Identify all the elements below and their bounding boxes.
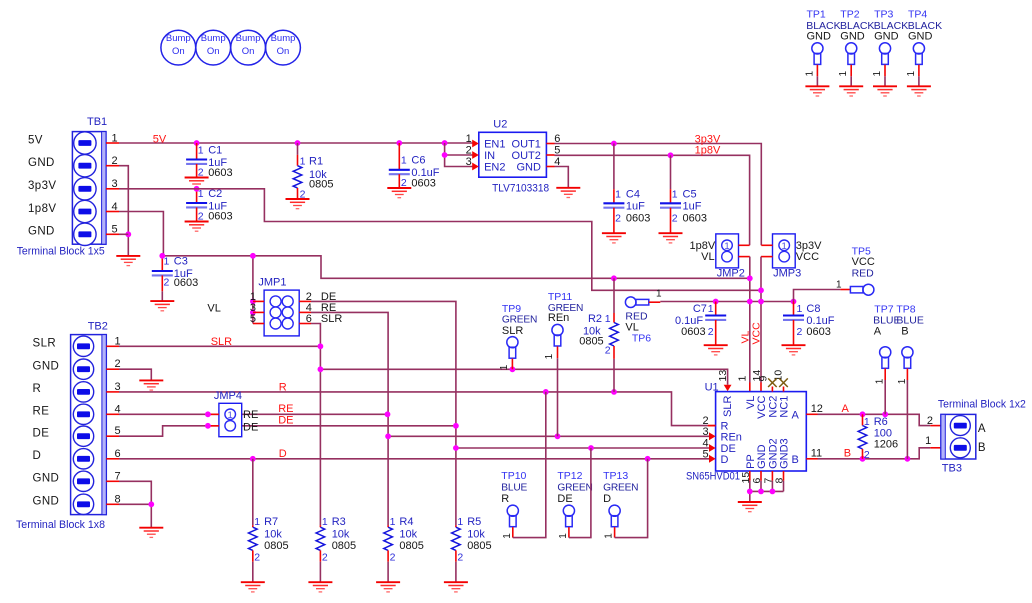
- jumper JMP1 body: [264, 290, 299, 336]
- svg-text:1: 1: [872, 71, 883, 77]
- junction: [159, 253, 165, 259]
- svg-text:Bump: Bump: [236, 33, 261, 44]
- capacitor C7: [675, 302, 726, 346]
- svg-text:GND: GND: [874, 31, 899, 43]
- capacitor C2: [186, 188, 233, 223]
- junction: [860, 456, 866, 462]
- svg-text:1: 1: [925, 435, 931, 447]
- svg-text:On: On: [277, 46, 290, 57]
- test point TP13: [603, 459, 648, 539]
- ground: [556, 188, 580, 198]
- svg-text:1: 1: [906, 71, 917, 77]
- svg-text:TB2: TB2: [88, 320, 108, 332]
- wire RE row: [119, 413, 388, 415]
- svg-text:GND: GND: [28, 226, 55, 238]
- svg-text:DE: DE: [278, 414, 293, 426]
- svg-text:2: 2: [390, 551, 396, 563]
- svg-text:GND: GND: [33, 496, 60, 508]
- svg-text:1: 1: [457, 516, 463, 528]
- svg-text:GND: GND: [840, 31, 865, 43]
- jumper JMP4 body: [219, 403, 242, 436]
- wire R net: [119, 392, 708, 426]
- svg-text:U1: U1: [705, 381, 719, 393]
- svg-text:TLV7103318: TLV7103318: [492, 183, 549, 195]
- svg-text:100: 100: [874, 428, 892, 440]
- wire U1 ground bus: [750, 490, 784, 492]
- svg-text:3: 3: [702, 426, 708, 438]
- wire VL vertical: [749, 257, 751, 383]
- resistor R4: [384, 516, 424, 582]
- svg-text:1: 1: [672, 189, 678, 201]
- U1 pin 3 arrow: [709, 432, 716, 440]
- svg-text:SLR: SLR: [211, 336, 232, 348]
- svg-text:GND: GND: [33, 361, 60, 373]
- resistor R6: [858, 414, 898, 461]
- svg-text:SLR: SLR: [33, 338, 57, 350]
- wire GND from TB1 pin5: [119, 233, 128, 235]
- junction: [713, 299, 719, 305]
- junction: [747, 489, 753, 495]
- junction: [385, 433, 391, 439]
- junction: [860, 411, 866, 417]
- svg-text:GND: GND: [33, 473, 60, 485]
- svg-text:SN65HVD01: SN65HVD01: [686, 470, 740, 482]
- JMP3 pin 2 stub: [761, 256, 773, 258]
- junction: [453, 423, 459, 429]
- svg-text:DE: DE: [33, 428, 50, 440]
- junction: [385, 411, 391, 417]
- svg-text:R5: R5: [467, 516, 481, 528]
- svg-text:C2: C2: [208, 188, 222, 200]
- JMP1 pin 1 stub: [253, 300, 264, 302]
- TB2 pin 7 stub: [106, 480, 119, 482]
- svg-text:C8: C8: [806, 303, 820, 315]
- svg-text:1: 1: [322, 516, 328, 528]
- JMP1 pin 2 stub: [299, 300, 311, 302]
- junction: [510, 366, 516, 372]
- wire D net: [119, 458, 709, 460]
- svg-text:R7: R7: [264, 516, 278, 528]
- svg-text:1p8V: 1p8V: [695, 145, 721, 157]
- U2 pin 6 stub: [546, 143, 554, 145]
- svg-text:2: 2: [708, 326, 714, 338]
- svg-text:B: B: [901, 325, 908, 337]
- svg-text:R3: R3: [332, 516, 346, 528]
- JMP1 pin 5 stub: [253, 323, 264, 325]
- ground: [444, 582, 468, 592]
- svg-text:0603: 0603: [806, 326, 830, 338]
- svg-text:0603: 0603: [626, 213, 650, 225]
- svg-text:8: 8: [774, 478, 786, 484]
- svg-text:2: 2: [112, 155, 118, 167]
- capacitor C5: [660, 155, 707, 233]
- svg-text:0805: 0805: [264, 540, 288, 552]
- svg-text:0805: 0805: [467, 540, 491, 552]
- jumper JMP2 body: [716, 234, 739, 268]
- svg-text:GND3: GND3: [779, 438, 791, 469]
- test point TP12: [557, 448, 592, 539]
- svg-text:TP6: TP6: [632, 333, 651, 345]
- ground: [139, 528, 163, 538]
- junction: [747, 299, 753, 305]
- svg-text:0603: 0603: [208, 211, 232, 223]
- svg-text:1: 1: [112, 132, 118, 144]
- svg-text:VCC: VCC: [756, 396, 768, 419]
- svg-text:0.1uF: 0.1uF: [806, 315, 834, 327]
- ground: [376, 582, 400, 592]
- capacitor C8: [783, 302, 835, 346]
- test point TP8: [896, 304, 923, 459]
- ground: [704, 345, 728, 355]
- svg-text:On: On: [207, 46, 220, 57]
- resistor R1: [293, 143, 333, 200]
- junction: [555, 433, 561, 439]
- test point TP10: [501, 392, 546, 539]
- svg-text:0805: 0805: [579, 336, 603, 348]
- svg-text:On: On: [242, 46, 255, 57]
- svg-text:EN1: EN1: [484, 139, 505, 151]
- svg-text:B: B: [791, 454, 798, 466]
- TB1 pin 1 stub: [106, 142, 119, 144]
- svg-text:2: 2: [457, 551, 463, 563]
- U1 pin 6 stub: [760, 471, 762, 481]
- svg-text:SLR: SLR: [502, 325, 523, 337]
- svg-text:0603: 0603: [683, 213, 707, 225]
- svg-text:R1: R1: [309, 155, 323, 167]
- svg-text:5: 5: [250, 313, 256, 325]
- svg-text:VL: VL: [739, 330, 751, 343]
- ground: [185, 178, 209, 188]
- svg-text:1: 1: [604, 533, 615, 539]
- svg-text:3p3V: 3p3V: [695, 133, 721, 145]
- svg-text:1: 1: [724, 241, 729, 252]
- wire U2 GND: [555, 167, 569, 188]
- svg-text:1uF: 1uF: [626, 201, 645, 213]
- resistor R5: [452, 516, 492, 582]
- svg-text:1: 1: [558, 533, 569, 539]
- svg-text:OUT1: OUT1: [512, 139, 541, 151]
- svg-text:5V: 5V: [153, 134, 167, 146]
- junction: [588, 445, 594, 451]
- svg-text:D: D: [721, 454, 729, 466]
- wire TB2 pin7 GND: [119, 481, 151, 504]
- U1 pin 13 arrow: [724, 385, 732, 392]
- svg-text:10k: 10k: [467, 528, 485, 540]
- fiducial bump circle B3: [231, 30, 266, 65]
- svg-text:A: A: [842, 403, 850, 415]
- svg-text:TP2: TP2: [840, 9, 859, 21]
- svg-text:D: D: [33, 450, 42, 462]
- U2 pin 5 stub: [546, 154, 554, 156]
- svg-text:0.1uF: 0.1uF: [675, 315, 703, 327]
- svg-text:Bump: Bump: [201, 33, 226, 44]
- junction: [611, 389, 617, 395]
- junction: [250, 299, 256, 305]
- junction: [611, 141, 617, 147]
- svg-text:BLUE: BLUE: [501, 483, 527, 494]
- svg-text:2: 2: [466, 145, 472, 157]
- svg-text:RE: RE: [33, 406, 50, 418]
- test point TP9: [499, 303, 537, 370]
- svg-text:1: 1: [254, 516, 260, 528]
- wire TP5 branch: [794, 290, 841, 302]
- svg-text:1206: 1206: [874, 439, 898, 451]
- svg-text:6: 6: [306, 313, 312, 325]
- svg-text:1: 1: [198, 144, 204, 156]
- U1 pin 8 stub: [783, 471, 785, 481]
- svg-text:RE: RE: [243, 409, 258, 421]
- svg-text:0805: 0805: [309, 178, 333, 190]
- terminal block TB1: [72, 132, 106, 246]
- wire SLR from TB2: [119, 345, 320, 347]
- junction: [770, 489, 776, 495]
- svg-text:U2: U2: [493, 119, 507, 131]
- svg-text:A: A: [874, 325, 882, 337]
- svg-text:0603: 0603: [681, 326, 705, 338]
- U1 pin 2 stub: [708, 425, 716, 427]
- junction: [611, 275, 617, 281]
- svg-text:2: 2: [615, 212, 621, 224]
- ground: [387, 188, 411, 198]
- wire GND from TB1 pin2: [119, 166, 128, 256]
- svg-text:2: 2: [164, 277, 170, 289]
- svg-text:C3: C3: [174, 255, 188, 267]
- svg-text:RED: RED: [625, 310, 648, 322]
- svg-text:TP3: TP3: [874, 9, 893, 21]
- capacitor C1: [186, 143, 233, 179]
- test point TP1 (GND): [804, 9, 840, 97]
- svg-text:TP10: TP10: [501, 470, 526, 482]
- svg-text:0603: 0603: [411, 177, 435, 189]
- svg-text:D: D: [603, 493, 611, 505]
- JMP1 pin 3 stub: [253, 311, 264, 313]
- U2 pin 4 stub: [546, 166, 554, 168]
- U1 pin 10 NC stub: [783, 387, 785, 392]
- U2 pin 3 arrow: [472, 163, 479, 171]
- junction: [396, 140, 402, 146]
- U2 pin 2 arrow: [472, 151, 479, 159]
- svg-text:1: 1: [300, 155, 306, 167]
- svg-text:GREEN: GREEN: [557, 483, 592, 494]
- svg-text:VCC: VCC: [796, 251, 819, 263]
- wire TB2 pin8 GND: [119, 503, 151, 505]
- svg-text:1uF: 1uF: [683, 201, 702, 213]
- test point TP6: [625, 289, 662, 345]
- junction: [905, 456, 911, 462]
- junction: [194, 140, 200, 146]
- junction: [453, 445, 459, 451]
- svg-text:R2: R2: [588, 313, 602, 325]
- svg-text:GND: GND: [908, 31, 933, 43]
- svg-text:1: 1: [466, 133, 472, 145]
- wire DE row: [119, 426, 456, 436]
- svg-text:GND: GND: [516, 162, 541, 174]
- TB1 pin 4 stub: [106, 211, 119, 213]
- svg-text:B: B: [978, 442, 986, 454]
- svg-text:10k: 10k: [399, 528, 417, 540]
- svg-text:C5: C5: [683, 189, 697, 201]
- svg-text:1: 1: [804, 71, 815, 77]
- junction: [125, 231, 131, 237]
- ground: [602, 233, 626, 243]
- resistor R7: [249, 516, 289, 582]
- svg-text:10k: 10k: [332, 528, 350, 540]
- junction: [318, 343, 324, 349]
- junction: [250, 456, 256, 462]
- svg-text:2: 2: [605, 345, 611, 357]
- svg-text:5: 5: [112, 224, 118, 236]
- ground: [139, 380, 163, 390]
- svg-text:C6: C6: [411, 154, 425, 166]
- svg-text:GREEN: GREEN: [502, 315, 537, 326]
- TB2 pin 4 stub: [106, 413, 119, 415]
- junction: [758, 489, 764, 495]
- svg-text:TB1: TB1: [87, 116, 107, 128]
- test point TP4 (GND): [906, 9, 942, 97]
- svg-text:1: 1: [897, 378, 908, 384]
- svg-text:SLR: SLR: [321, 313, 342, 325]
- svg-text:REn: REn: [721, 432, 742, 444]
- svg-text:2: 2: [672, 212, 678, 224]
- TB2 pin 8 stub: [106, 503, 119, 505]
- JMP2 pin 1 stub: [739, 244, 750, 246]
- svg-text:12: 12: [811, 403, 823, 415]
- svg-text:EN2: EN2: [484, 162, 505, 174]
- svg-text:5V: 5V: [28, 134, 43, 146]
- fiducial bump circle B4: [266, 30, 301, 65]
- wire REn row: [388, 435, 709, 437]
- svg-text:1: 1: [605, 313, 611, 325]
- junction: [668, 152, 674, 158]
- svg-text:1: 1: [875, 378, 886, 384]
- ground: [308, 582, 332, 592]
- JMP4 pin 1 stub: [208, 413, 219, 415]
- svg-text:2: 2: [927, 415, 933, 427]
- svg-text:R6: R6: [874, 416, 888, 428]
- TB2 pin 1 stub: [106, 345, 119, 347]
- junction: [250, 253, 256, 259]
- fiducial bump circle B2: [196, 30, 231, 65]
- TB2 pin 6 stub: [106, 458, 119, 460]
- svg-text:JMP4: JMP4: [214, 390, 242, 402]
- wire JMP1 RE out: [311, 312, 388, 525]
- svg-text:10k: 10k: [264, 528, 282, 540]
- svg-text:1: 1: [782, 241, 787, 252]
- TB1 pin 2 stub: [106, 165, 119, 167]
- wire JMP1 DE out: [311, 301, 456, 525]
- test point TP2 (GND): [838, 9, 874, 97]
- svg-text:1: 1: [228, 410, 233, 421]
- svg-text:R: R: [501, 493, 509, 505]
- svg-text:C4: C4: [626, 189, 640, 201]
- capacitor C3: [152, 255, 198, 301]
- svg-text:1p8V: 1p8V: [28, 203, 56, 215]
- svg-text:1: 1: [708, 303, 714, 315]
- ground: [241, 582, 265, 592]
- svg-text:1: 1: [656, 289, 662, 300]
- svg-text:REn: REn: [548, 312, 569, 324]
- svg-text:DE: DE: [557, 493, 572, 505]
- U1 pin 5 arrow: [709, 455, 716, 463]
- svg-text:D: D: [279, 448, 287, 460]
- junction: [318, 366, 324, 372]
- wire DE row 2: [456, 447, 709, 449]
- svg-text:6: 6: [751, 478, 763, 484]
- svg-text:VL: VL: [745, 396, 757, 409]
- capacitor C4: [603, 144, 650, 234]
- wire TB2 pin2 GND: [119, 369, 151, 380]
- svg-text:C7: C7: [693, 303, 707, 315]
- wire 5V net: [119, 142, 474, 144]
- svg-text:TP4: TP4: [908, 9, 927, 21]
- junction: [882, 411, 888, 417]
- svg-text:2: 2: [322, 551, 328, 563]
- junction: [205, 423, 211, 429]
- ground: [116, 256, 140, 266]
- svg-text:RE: RE: [278, 403, 293, 415]
- test point TP11: [544, 291, 583, 436]
- TB2 pin 3 stub: [106, 391, 119, 393]
- ground: [286, 199, 310, 209]
- wire VCC vertical: [760, 257, 762, 383]
- JMP3 pin 1 stub: [761, 244, 772, 246]
- wire 1p8V rail: [555, 155, 750, 245]
- svg-text:0603: 0603: [208, 167, 232, 179]
- junction: [442, 152, 448, 158]
- svg-text:A: A: [791, 409, 799, 421]
- junction: [645, 456, 651, 462]
- svg-text:9: 9: [758, 376, 770, 382]
- svg-text:GND: GND: [756, 444, 768, 469]
- svg-text:TP1: TP1: [807, 9, 826, 21]
- junction: [148, 501, 154, 507]
- U1 pin 4 arrow: [709, 444, 716, 452]
- svg-text:R: R: [279, 381, 287, 393]
- test point TP7: [873, 304, 900, 415]
- resistor R2: [579, 278, 618, 392]
- svg-text:1: 1: [737, 376, 749, 382]
- test point TP5: [836, 245, 875, 295]
- svg-text:R: R: [33, 383, 42, 395]
- svg-text:5: 5: [702, 448, 708, 460]
- svg-text:C1: C1: [208, 144, 222, 156]
- svg-text:2: 2: [864, 449, 870, 461]
- svg-text:Terminal Block 1x5: Terminal Block 1x5: [17, 246, 105, 258]
- wire VL to JMP1: [252, 256, 254, 324]
- svg-text:1: 1: [502, 533, 513, 539]
- svg-text:11: 11: [811, 447, 822, 459]
- U1 pin 12 stub: [806, 413, 817, 415]
- TB1 pin 3 stub: [106, 188, 119, 190]
- resistor R3: [316, 516, 356, 582]
- U2 pin 1 arrow: [472, 140, 479, 148]
- svg-text:Bump: Bump: [271, 33, 296, 44]
- fiducial bump circle B1: [161, 30, 196, 65]
- JMP4 pin 2 stub: [208, 425, 219, 427]
- svg-text:GND: GND: [807, 31, 832, 43]
- wire R7 drop: [252, 459, 254, 525]
- svg-text:1: 1: [390, 516, 396, 528]
- TB1 pin 5 stub: [106, 233, 119, 235]
- ground: [738, 502, 762, 512]
- junction: [194, 186, 200, 192]
- wire A net: [818, 414, 931, 425]
- svg-text:A: A: [978, 423, 986, 435]
- U1 pin 7 stub: [771, 471, 773, 481]
- svg-text:PP: PP: [745, 454, 757, 469]
- junction: [442, 140, 448, 146]
- svg-text:RED: RED: [852, 267, 875, 279]
